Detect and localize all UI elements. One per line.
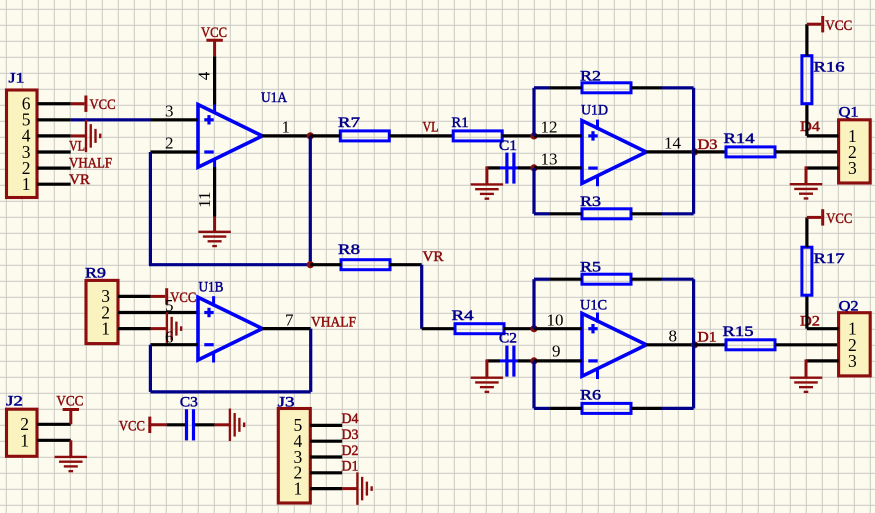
wire R5 left pin: [550, 278, 582, 281]
wire R5 loop left vertical: [532, 279, 535, 329]
wire U1A pin 4: [213, 56, 216, 104]
power stub top U1D: [596, 120, 599, 130]
ground (J1 pin 4): [71, 120, 101, 152]
svg-text:R14: R14: [724, 131, 756, 147]
wire R15 left pin: [695, 343, 726, 346]
capacitor C2: [499, 331, 521, 377]
wire R2 right pin: [631, 86, 662, 89]
svg-text:D2: D2: [800, 313, 820, 329]
wire R6 right pin: [631, 407, 662, 410]
svg-text:5: 5: [165, 296, 174, 315]
wire U1A pin 11: [213, 167, 216, 216]
svg-text:VCC: VCC: [90, 97, 116, 113]
ground (C1): [471, 166, 504, 198]
ground (Q1 pin 3): [790, 166, 823, 198]
svg-text:VR: VR: [69, 172, 90, 188]
svg-text:3: 3: [165, 102, 174, 121]
svg-text:C3: C3: [180, 395, 198, 411]
wire J3 pin 3: [310, 455, 342, 458]
power stub bottom U1D: [596, 176, 599, 186]
wire R14 left pin: [695, 150, 726, 153]
power stub top U1B: [212, 296, 215, 306]
wire U1D pin 14 output: [646, 150, 693, 153]
wire C1 right pin: [518, 166, 534, 169]
svg-text:U1C: U1C: [580, 297, 607, 313]
svg-text:R4: R4: [452, 308, 475, 324]
power VCC (R9 pin 3): [151, 288, 197, 306]
wire R1 right pin: [502, 134, 534, 137]
ground (J2 pin 1): [55, 440, 88, 471]
power VCC (U1A pin 4): [201, 25, 227, 56]
power stub top U1C: [596, 313, 599, 323]
svg-text:C2: C2: [499, 331, 517, 347]
wire U1A pin 1 output: [262, 134, 310, 137]
wire R17 top pin: [805, 217, 808, 247]
svg-text:1: 1: [22, 174, 31, 194]
wire R3 loop bottom-right: [662, 212, 694, 215]
wire R15 to Q2 pin 2: [775, 343, 839, 346]
wire R6 left pin: [550, 407, 582, 410]
wire C1 left pin: [487, 166, 500, 169]
svg-text:VR: VR: [423, 249, 444, 265]
wire Q1 pin 3: [806, 166, 839, 169]
wire U1A pin 2: [151, 150, 199, 153]
wire net to U1A +in: [71, 118, 151, 121]
svg-text:J1: J1: [9, 71, 25, 87]
resistor R2: [580, 68, 631, 92]
op-amp U1A: [198, 90, 287, 168]
power stub top U1A: [213, 104, 216, 113]
svg-text:12: 12: [541, 118, 558, 137]
wire R7-R1: [389, 134, 453, 137]
svg-text:1: 1: [294, 478, 303, 498]
wire R2 loop top-left: [534, 86, 550, 89]
wire R9 pin 2 to U1B +in: [118, 311, 198, 314]
wire R4 right pin: [504, 327, 534, 330]
wire J3 pin 4: [310, 440, 342, 443]
wire R3 loop left vertical: [532, 168, 535, 214]
wire C2 left pin: [487, 359, 500, 362]
power VCC (R16): [807, 16, 852, 34]
wire R3 loop bottom-left: [534, 212, 550, 215]
power VCC (J1 pin 6): [71, 96, 116, 113]
wire R6 loop bottom-left: [534, 407, 550, 410]
connector J3: [278, 395, 311, 503]
svg-text:1: 1: [282, 118, 291, 137]
svg-text:C1: C1: [499, 138, 517, 154]
junction (D3 node): [691, 148, 698, 155]
op-amp U1C: [580, 297, 646, 379]
wire J1 pin 2: [37, 167, 71, 170]
wire R2 loop left vertical: [532, 88, 535, 136]
wire R9 pin 1: [118, 327, 151, 330]
power VCC (C3): [119, 417, 167, 435]
svg-text:VHALF: VHALF: [69, 156, 112, 172]
wire R5 loop top-left: [534, 278, 550, 281]
wire U1C pin 10: [534, 327, 582, 330]
wire R2 left pin: [550, 86, 582, 89]
svg-text:J2: J2: [6, 394, 23, 410]
op-amp U1B: [198, 280, 262, 363]
svg-text:3: 3: [848, 351, 857, 371]
ground (Q2 pin 3): [790, 359, 823, 392]
junction (D1 node): [691, 341, 698, 348]
wire J3 pin 1: [310, 487, 342, 490]
svg-text:3: 3: [848, 158, 857, 178]
svg-text:VCC: VCC: [56, 394, 83, 410]
junction (U1C pin9 node): [530, 357, 537, 364]
wire feedback bottom: [149, 263, 310, 266]
resistor R14: [724, 131, 776, 157]
wire R6 loop right vertical: [692, 345, 695, 409]
wire J1 pin 3: [37, 150, 71, 153]
wire R2 loop right vertical: [692, 88, 695, 152]
wire J1 pin 5: [37, 118, 71, 121]
svg-text:R1: R1: [452, 115, 469, 131]
svg-text:VCC: VCC: [170, 290, 196, 306]
wire U1C pin 9: [534, 359, 582, 362]
power stub bottom U1A: [213, 159, 216, 168]
capacitor C1: [499, 138, 521, 184]
resistor R15: [723, 324, 776, 350]
wire C3 left pin: [167, 423, 185, 426]
svg-text:D3: D3: [342, 427, 359, 443]
svg-text:1: 1: [101, 318, 110, 338]
power VCC (J2 pin 2): [56, 394, 83, 425]
svg-text:VCC: VCC: [825, 18, 852, 34]
svg-text:14: 14: [664, 134, 682, 153]
wire R3 loop right vertical: [692, 152, 695, 214]
power stub bottom U1B: [212, 353, 215, 362]
wire feedback vertical: [309, 136, 312, 265]
svg-text:VCC: VCC: [201, 25, 227, 41]
wire J1 pin 6: [37, 102, 71, 105]
wire J2 pin 1: [37, 439, 71, 442]
wire U1B loop bottom: [150, 390, 310, 393]
wire Q2 pin 1: [807, 327, 839, 330]
resistor R4: [452, 308, 505, 334]
wire R2 loop top-right: [662, 86, 694, 89]
wire C3 right pin: [195, 423, 215, 426]
svg-text:U1A: U1A: [261, 90, 287, 106]
wire R8 right pin: [390, 263, 422, 266]
wire Q1 pin 1: [807, 134, 839, 137]
svg-text:R8: R8: [338, 242, 360, 258]
svg-text:7: 7: [285, 310, 294, 329]
svg-text:8: 8: [669, 327, 678, 346]
wire U1D pin 13: [534, 166, 582, 169]
connector Q1: [839, 105, 871, 183]
wire U1B pin 6: [151, 343, 199, 346]
wire R16 bottom pin: [805, 104, 808, 136]
wire C2 right pin: [518, 359, 534, 362]
svg-text:6: 6: [165, 327, 174, 346]
wire R3 left pin: [550, 212, 582, 215]
svg-text:2: 2: [165, 134, 174, 153]
svg-text:D2: D2: [342, 443, 359, 459]
wire J1 pin 4: [37, 134, 71, 137]
svg-text:D4: D4: [800, 119, 821, 135]
junction (U1A output node): [307, 132, 314, 139]
wire J3 pin 5: [310, 424, 342, 427]
junction (U1D pin12 node): [530, 132, 537, 139]
junction (U1D pin13 node): [530, 164, 537, 171]
resistor R17: [802, 247, 845, 295]
svg-text:4: 4: [195, 71, 214, 80]
power stub bottom U1C: [596, 369, 599, 379]
connector Q2: [839, 298, 871, 376]
wire R5 right pin: [631, 278, 662, 281]
wire R3 right pin: [631, 212, 662, 215]
wire R16 top pin: [805, 24, 808, 56]
resistor R6: [580, 388, 631, 414]
ground (J3 pin 1): [342, 472, 371, 505]
svg-text:VL: VL: [69, 138, 85, 154]
wire R5 loop top-right: [662, 278, 694, 281]
power VCC (R17): [807, 209, 852, 227]
wire R7 left pin: [310, 134, 340, 137]
capacitor C3: [180, 395, 198, 441]
wire feedback left: [149, 152, 152, 265]
ground (C2): [471, 359, 504, 392]
junction (R8 node): [307, 261, 314, 268]
svg-text:1: 1: [20, 430, 29, 450]
svg-text:R15: R15: [723, 324, 754, 340]
ground (U1A pin 11): [198, 217, 231, 247]
svg-text:R7: R7: [338, 115, 361, 131]
resistor R1: [452, 115, 503, 141]
svg-text:R6: R6: [580, 388, 602, 404]
wire R6 loop left vertical: [532, 361, 535, 409]
wire VR vertical: [420, 265, 423, 329]
svg-text:VCC: VCC: [826, 211, 852, 227]
op-amp U1D: [581, 103, 646, 187]
junction (U1C pin10 node): [530, 325, 537, 332]
svg-text:U1B: U1B: [199, 280, 224, 296]
svg-text:R17: R17: [814, 251, 846, 267]
wire U1C pin 8 output: [646, 343, 693, 346]
svg-text:VHALF: VHALF: [311, 315, 356, 331]
wire J2 pin 2: [37, 423, 71, 426]
connector R9: [85, 265, 118, 343]
wire Q2 pin 3: [806, 359, 839, 362]
wire J1 pin 1: [37, 183, 71, 186]
ground (C3): [215, 409, 244, 442]
wire U1B loop right: [309, 329, 312, 392]
svg-text:10: 10: [547, 310, 564, 329]
connector J2: [6, 394, 37, 457]
wire J3 pin 2: [310, 471, 342, 474]
wire R17 bottom pin: [805, 296, 808, 329]
wire U1B loop left: [149, 345, 152, 392]
wire R14 to Q1 pin 2: [775, 150, 839, 153]
resistor R7: [338, 115, 389, 141]
svg-text:D1: D1: [342, 459, 359, 475]
resistor R16: [802, 56, 845, 104]
svg-text:VCC: VCC: [119, 418, 145, 434]
svg-text:R16: R16: [814, 59, 846, 75]
wire U1D pin 12: [534, 134, 582, 137]
wire R5 loop right vertical: [692, 279, 695, 345]
resistor R8: [338, 242, 390, 270]
svg-text:VL: VL: [423, 120, 439, 136]
connector J1: [7, 71, 38, 198]
svg-text:9: 9: [552, 342, 561, 361]
resistor R3: [580, 194, 631, 219]
ground (R9 pin 1): [151, 312, 182, 345]
wire R4 left pin: [422, 327, 455, 330]
svg-text:U1D: U1D: [581, 103, 608, 119]
wire U1A pin 3: [151, 118, 199, 121]
svg-text:Q1: Q1: [839, 105, 859, 121]
svg-text:13: 13: [541, 150, 558, 169]
wire R9 pin 3: [118, 295, 151, 298]
svg-text:11: 11: [195, 192, 214, 208]
resistor R5: [580, 259, 631, 284]
wire U1B pin 7 output: [262, 327, 310, 330]
svg-text:D4: D4: [342, 411, 359, 427]
wire R6 loop bottom-right: [662, 407, 694, 410]
wire R8 left pin: [310, 263, 341, 266]
